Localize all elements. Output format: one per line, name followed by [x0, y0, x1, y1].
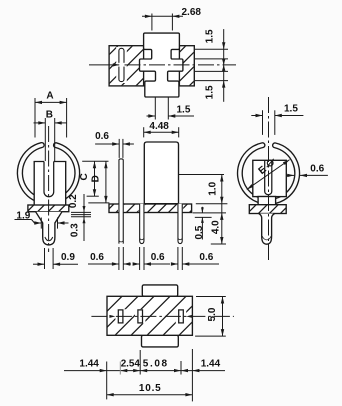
svg-text:D: D — [91, 175, 102, 182]
svg-text:0.6: 0.6 — [151, 252, 165, 263]
svg-text:1.5: 1.5 — [204, 85, 215, 99]
svg-text:0.3: 0.3 — [70, 223, 81, 237]
svg-text:5.08: 5.08 — [143, 358, 169, 369]
svg-text:1.0: 1.0 — [208, 181, 219, 195]
svg-text:5.0: 5.0 — [207, 307, 218, 321]
svg-text:4.48: 4.48 — [149, 121, 169, 132]
svg-text:1.5: 1.5 — [177, 105, 191, 116]
svg-text:0.6: 0.6 — [310, 164, 324, 175]
svg-text:0.6: 0.6 — [199, 252, 213, 263]
svg-text:0.2: 0.2 — [68, 194, 79, 208]
svg-text:0.5: 0.5 — [194, 225, 205, 239]
svg-text:0.9: 0.9 — [61, 252, 75, 263]
svg-text:2.68: 2.68 — [182, 7, 202, 18]
svg-text:2.54: 2.54 — [121, 358, 141, 369]
svg-text:0.6: 0.6 — [90, 252, 104, 263]
svg-text:1.44: 1.44 — [201, 358, 221, 369]
svg-text:1.5: 1.5 — [204, 29, 215, 43]
svg-text:4.0: 4.0 — [211, 220, 222, 234]
svg-text:A: A — [46, 91, 53, 102]
svg-text:1.44: 1.44 — [79, 358, 99, 369]
svg-text:B: B — [46, 109, 53, 120]
svg-text:10.5: 10.5 — [139, 383, 162, 394]
svg-text:1.5: 1.5 — [284, 103, 298, 114]
svg-text:C: C — [79, 173, 90, 180]
svg-text:0.6: 0.6 — [95, 131, 109, 142]
